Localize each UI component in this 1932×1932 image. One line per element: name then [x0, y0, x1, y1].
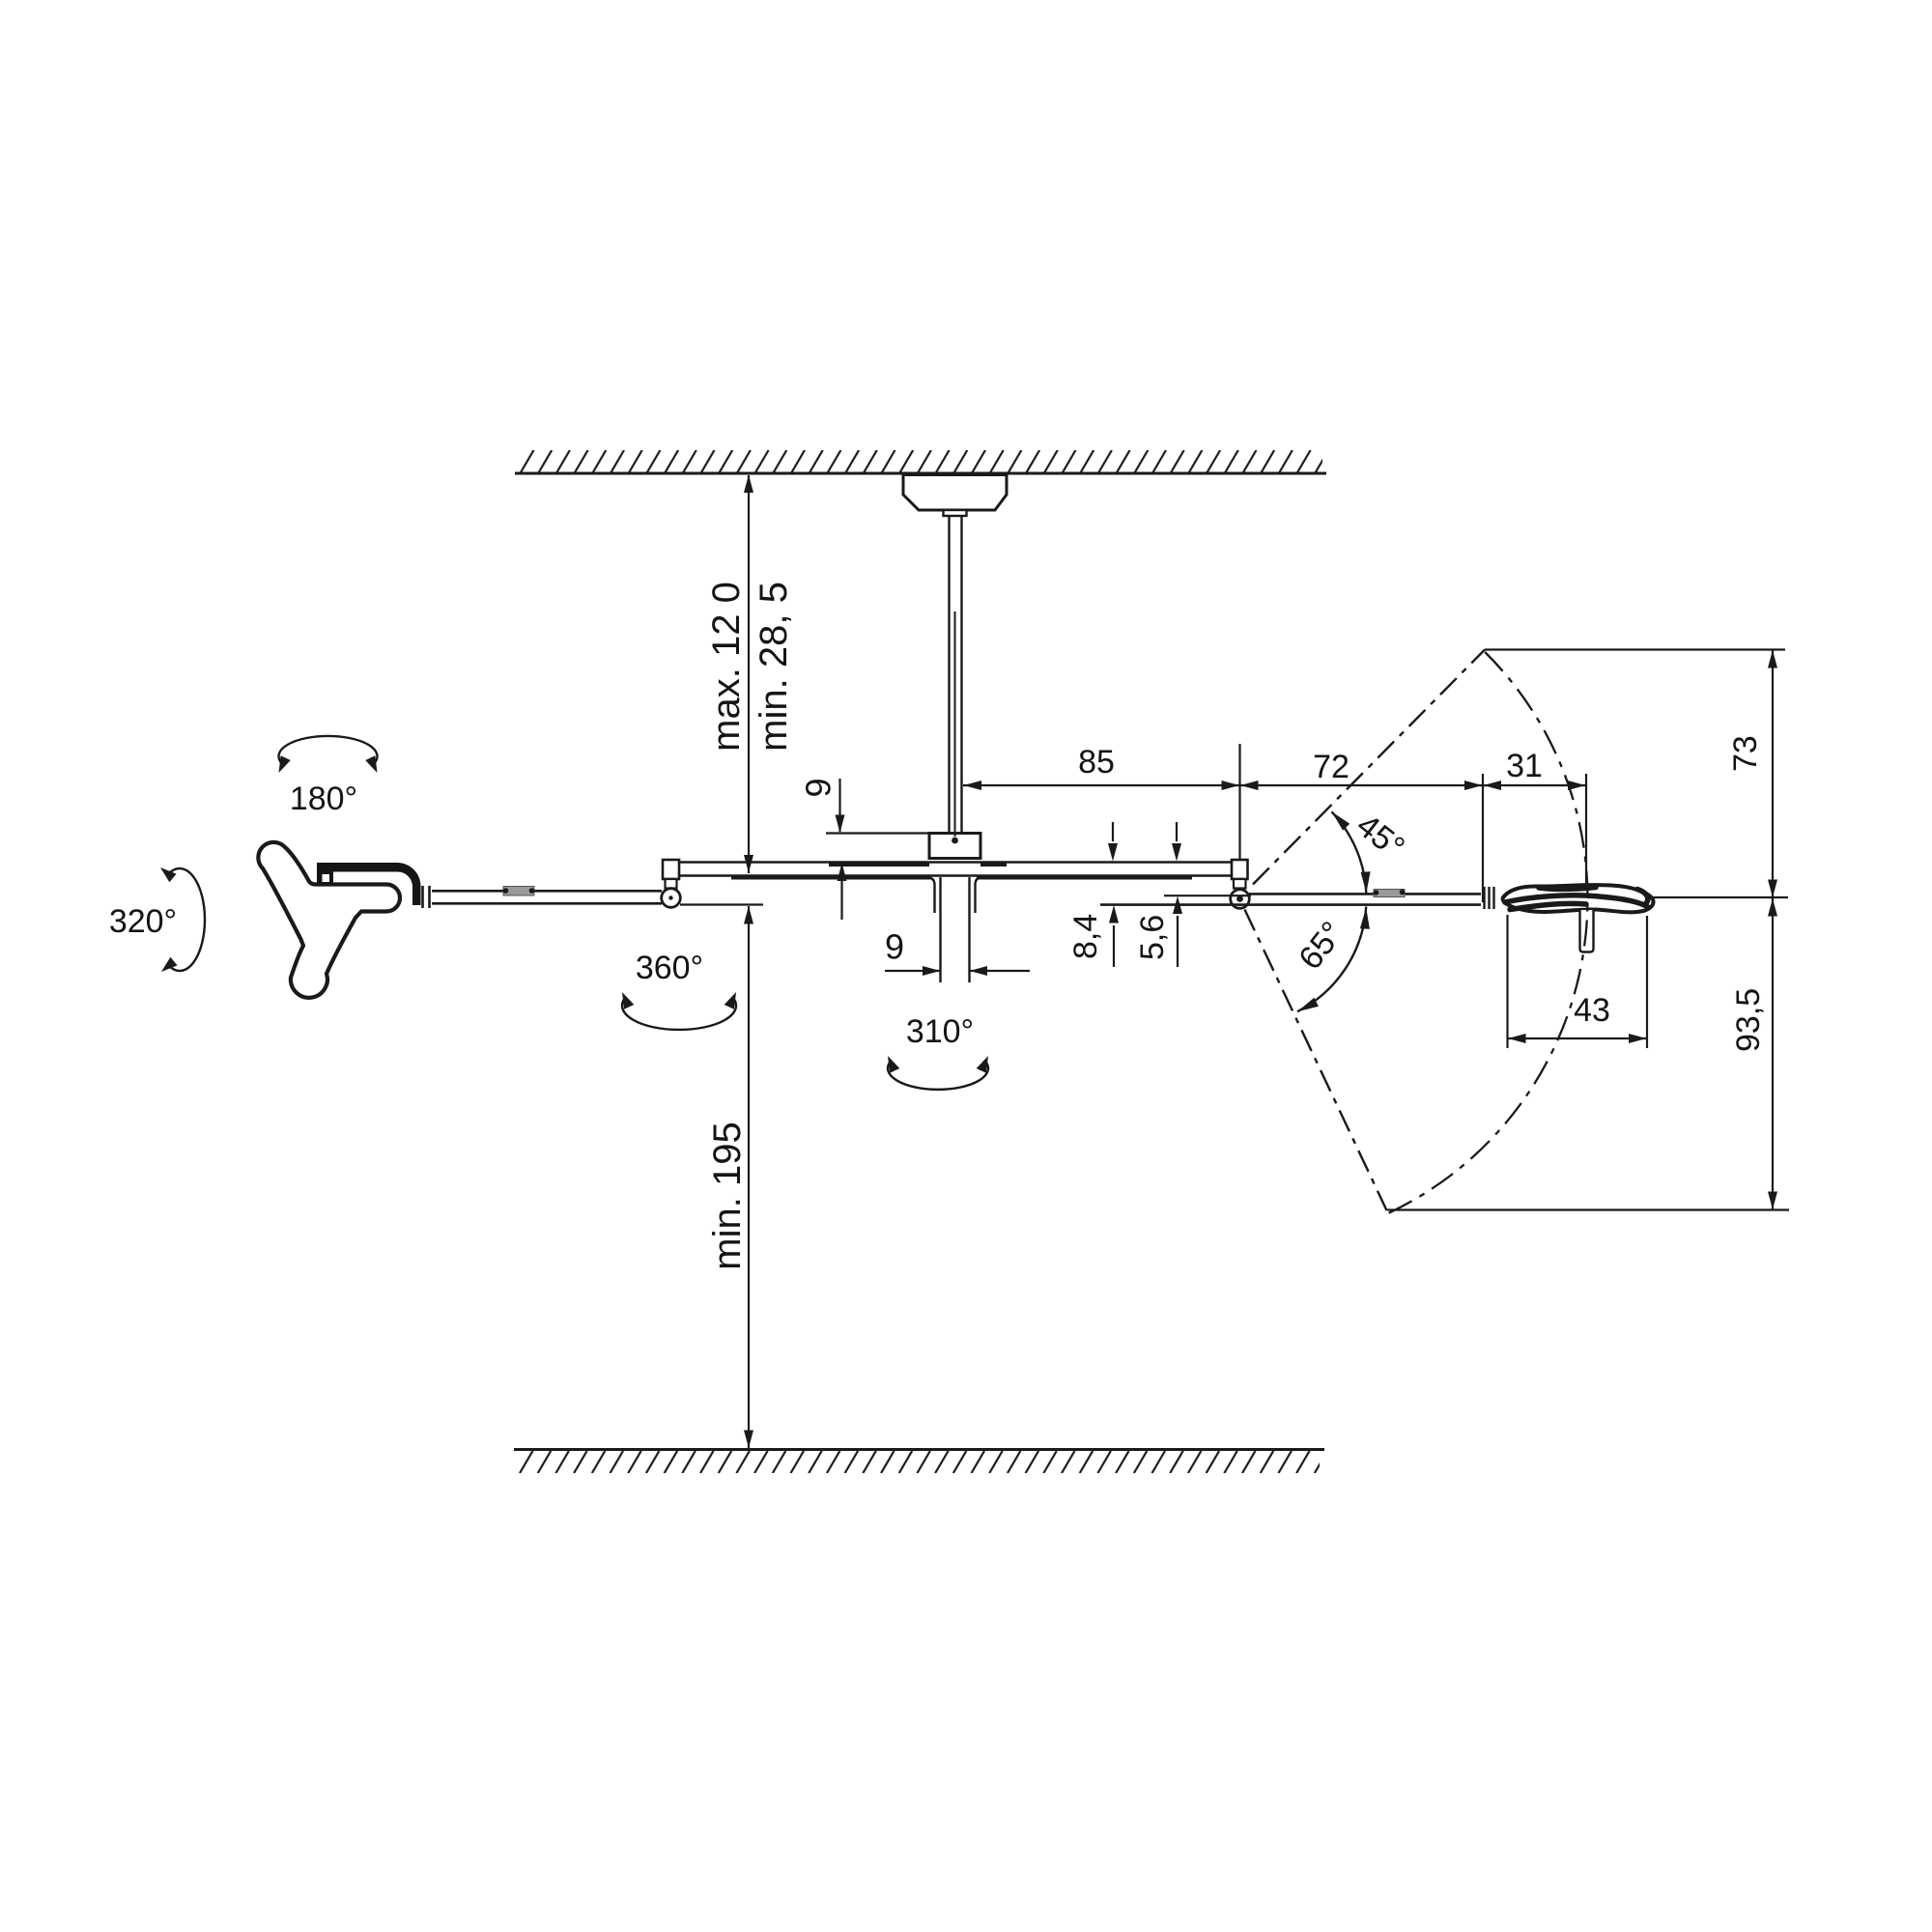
right arm joint bracket — [1232, 860, 1248, 879]
right head handle — [1580, 910, 1594, 952]
right arm top extension tail — [1164, 895, 1251, 896]
svg-text:360°: 360° — [636, 950, 703, 986]
top extension line — [1485, 648, 1785, 650]
320 degree rotation arc — [169, 868, 205, 971]
left spring arm — [432, 891, 662, 903]
svg-text:73: 73 — [1727, 735, 1764, 772]
360 degree rotation arc — [622, 998, 736, 1030]
dimension extension line x=1535 — [1482, 774, 1484, 902]
svg-text:9: 9 — [885, 927, 904, 967]
right lamp head — [1503, 885, 1654, 912]
ceiling line — [515, 472, 1326, 475]
8,4 dimension arrows — [1112, 822, 1114, 841]
right vertical dimension line — [1772, 650, 1774, 1210]
svg-text:max. 12 0: max. 12 0 — [705, 582, 748, 752]
left arm bottom extension line — [680, 903, 763, 905]
ceiling hatch — [519, 450, 1322, 472]
svg-text:5,6: 5,6 — [1134, 915, 1171, 960]
right arm coupling ticks — [1485, 887, 1494, 909]
vertical 9 dimension arrows — [838, 779, 840, 832]
svg-text:310°: 310° — [906, 1013, 974, 1050]
lower shaft prongs — [941, 877, 970, 982]
lower shaft collar — [927, 878, 981, 914]
left arm coupling ticks — [423, 886, 430, 908]
floor line — [514, 1448, 1324, 1451]
swivel range arc (dashed) — [1388, 652, 1588, 1213]
horizontal 9 dimension arrows — [885, 970, 940, 972]
drop pole — [950, 516, 962, 833]
45 degree angle arc — [1332, 811, 1367, 895]
center hub — [929, 834, 980, 859]
pole inner cable — [954, 611, 956, 837]
svg-text:9: 9 — [799, 778, 838, 797]
180 degree rotation arc — [279, 736, 378, 763]
max/min dimension line — [748, 475, 750, 873]
svg-text:320°: 320° — [109, 903, 177, 940]
hub top extension line — [826, 832, 929, 834]
left joint pivot circle — [662, 889, 681, 908]
svg-text:min. 195: min. 195 — [706, 1122, 749, 1269]
left arm slider handle — [503, 887, 534, 896]
left lamp head (Y shape) — [258, 842, 400, 998]
min 195 dimension line — [748, 906, 750, 1448]
svg-text:31: 31 — [1506, 748, 1543, 784]
43 extension lines — [1508, 915, 1648, 1048]
right spring arm — [1100, 894, 1481, 904]
svg-text:8,4: 8,4 — [1067, 914, 1104, 959]
65 degree swivel line (dash-dot) — [1245, 910, 1387, 1211]
5,6 dimension arrows — [1176, 822, 1178, 841]
bottom extension line — [1387, 1208, 1789, 1210]
main horizontal support bar — [679, 863, 1232, 876]
dimension extension line x=1642 — [1585, 774, 1587, 886]
ceiling canopy — [903, 475, 1007, 511]
right joint pivot circle — [1231, 890, 1250, 909]
mount bar notch detail — [323, 874, 330, 882]
left head mount bar (black) — [317, 863, 421, 905]
svg-text:72: 72 — [1313, 749, 1350, 785]
svg-text:180°: 180° — [290, 781, 357, 817]
left arm joint bracket — [663, 860, 679, 879]
bar thick shading segments — [731, 865, 1192, 878]
top dimension line 85/72/31 — [963, 784, 1586, 786]
right arm slider handle — [1374, 890, 1405, 897]
65 degree angle arc — [1297, 907, 1366, 1012]
svg-text:min. 28, 5: min. 28, 5 — [753, 582, 795, 752]
right head shading strokes — [1505, 888, 1648, 910]
svg-text:93,5: 93,5 — [1730, 988, 1767, 1052]
svg-text:43: 43 — [1574, 992, 1610, 1029]
canopy neck — [944, 510, 967, 516]
middle extension line — [1651, 896, 1788, 898]
dimension extension line at right joint — [1238, 744, 1240, 860]
310 degree rotation arc — [888, 1062, 988, 1090]
floor hatch — [518, 1451, 1320, 1473]
svg-text:85: 85 — [1078, 744, 1115, 781]
43 dimension line — [1508, 1037, 1648, 1039]
45 degree swivel line (dash-dot) — [1253, 650, 1485, 885]
